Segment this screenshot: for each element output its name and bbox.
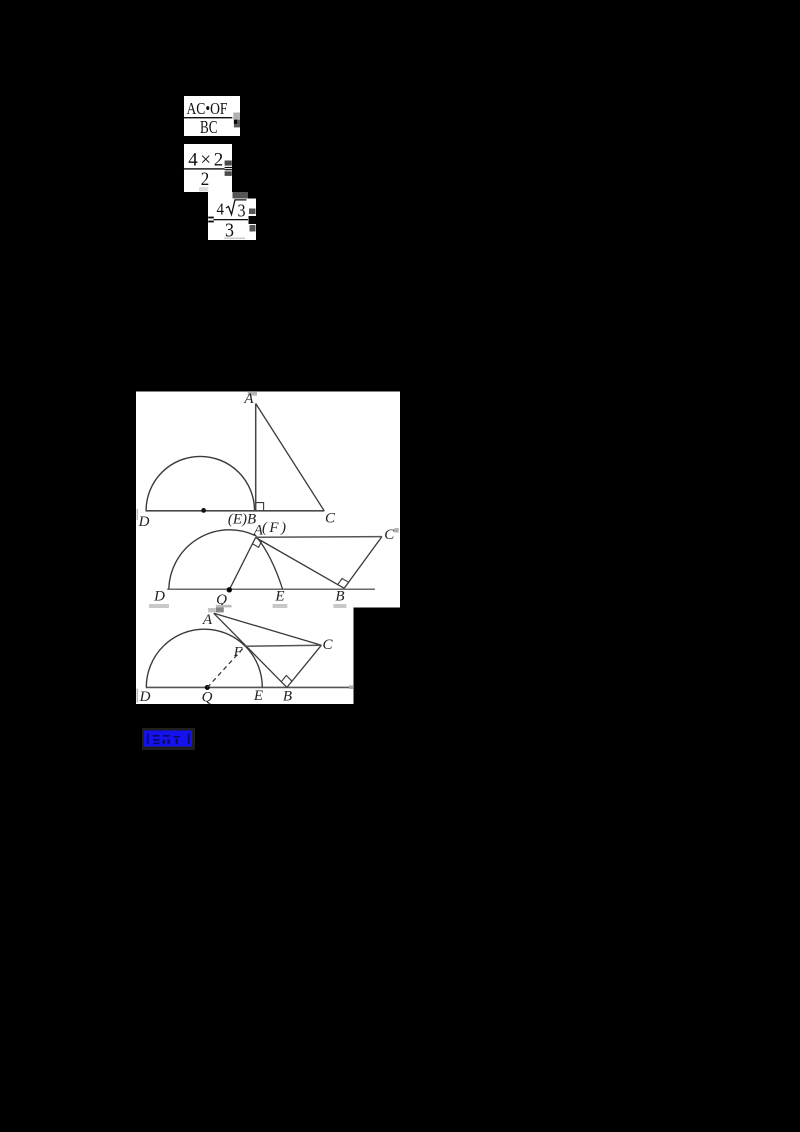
gray smudge above A [248,392,257,396]
svg-text:4: 4 [217,200,225,219]
svg-text:A: A [202,612,213,628]
blue highlight block [144,731,192,747]
svg-text:(E)B: (E)B [228,512,256,528]
svg-text:C: C [322,637,333,653]
svg-text:2: 2 [201,170,210,190]
fraction block 3 white box [208,192,256,240]
radical sign [226,200,247,215]
svg-text:4×2: 4×2 [188,150,223,171]
center dot Q [205,685,210,690]
radius QA [229,538,255,590]
diagrams white panel [136,392,400,705]
fraction 2 equals artifacts [225,161,232,166]
semicircle over DB [146,456,254,510]
gray underline under B [333,604,346,608]
svg-text:BC: BC [200,117,218,137]
left edge tick near D (diagram 1) [137,509,139,520]
fraction 3 top gray artifact [233,192,249,199]
dark glyphs in blue block [147,734,149,745]
svg-text:A: A [243,391,254,407]
line AC' [256,536,382,539]
line AC [214,613,322,645]
fraction 2 bottom light artifact [199,187,208,191]
baseline D..B extended [146,686,349,688]
line AB [256,538,345,589]
svg-text:Q: Q [202,690,213,706]
gray blocks under Q [216,605,232,608]
vertical AB [255,404,257,511]
fraction 1 bar [183,117,232,118]
center dot Q [227,587,232,592]
baseline DC [146,510,325,512]
right angle at A [253,541,262,547]
svg-text:E: E [253,688,263,704]
line AB [214,613,287,687]
fraction block 2 white box [184,144,232,192]
fraction 1 right artifacts [233,113,240,120]
left edge tick near D (diagram 3) [137,689,139,703]
fraction 2 bar [184,168,225,169]
fraction block 1 white box [184,96,240,136]
svg-text:B: B [335,589,344,605]
svg-text:AC•OF: AC•OF [187,99,228,118]
small arc A to E [256,536,282,589]
semicircle [146,629,262,687]
svg-text:(F): (F) [262,520,286,536]
svg-text:F: F [233,645,243,660]
fraction 3 bottom light line [224,238,245,240]
big semicircle arc D to A [169,530,256,589]
svg-text:E: E [274,589,284,605]
right angle at B [338,579,349,585]
fraction 3 right artifacts [249,209,256,215]
fraction 3 bar [214,219,249,220]
svg-text:D: D [153,589,165,605]
baseline D..B extended [167,588,375,590]
right angle at B [281,676,292,682]
fraction 3 equals sign [208,217,214,219]
svg-text:B: B [283,689,292,705]
svg-text:D: D [139,689,151,705]
dashed QF [207,648,244,688]
gray underline under E [273,604,288,608]
gray underline under D [149,604,169,608]
svg-text:C: C [325,511,336,527]
line CB [287,645,322,687]
line FC [244,645,321,646]
right angle at B [256,503,264,511]
center dot [201,508,206,513]
svg-text:C: C [384,527,395,543]
line C'B [344,537,382,589]
fleck right of C' [394,528,398,532]
baseline right gray tip [349,686,353,690]
svg-text:3: 3 [238,200,246,220]
svg-text:D: D [138,514,150,530]
blue highlight block halo [142,728,195,750]
hypotenuse AC [256,404,325,511]
